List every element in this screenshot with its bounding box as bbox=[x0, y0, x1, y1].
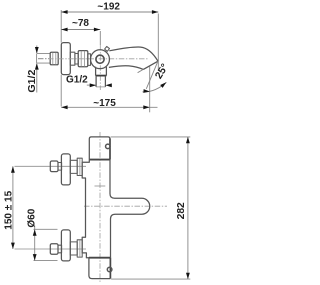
G1/2 supply pipe dimension (left) bbox=[36, 46, 38, 93]
lower valve cap bbox=[50, 244, 58, 255]
small tab on handle bbox=[105, 46, 110, 51]
arc arrowhead at slanted ray bbox=[160, 82, 166, 88]
upper valve adapter bbox=[58, 163, 62, 171]
upper valve centerline bbox=[15, 165, 87, 167]
upper valve escutcheon bbox=[61, 154, 70, 185]
spout outlet edge bbox=[143, 61, 158, 69]
vertical centerline of column bbox=[99, 132, 101, 283]
top plate screw hole bbox=[106, 144, 111, 149]
svg-text:Ø60: Ø60 bbox=[26, 208, 37, 227]
dimension 150 plus-minus 15 bbox=[12, 166, 14, 249]
282 extension lines bbox=[111, 137, 191, 279]
svg-text:~175: ~175 bbox=[93, 98, 116, 109]
upper valve cap bbox=[50, 161, 58, 172]
bottom plate screw hole bbox=[107, 267, 112, 272]
dimension 282 bbox=[187, 137, 189, 279]
shower outlet tube bbox=[96, 76, 105, 87]
svg-text:150 ± 15: 150 ± 15 bbox=[3, 190, 14, 229]
wall reference extension line bbox=[60, 10, 62, 107]
extension line at outlet (for ~175) bbox=[149, 67, 151, 113]
lower valve ring bbox=[70, 242, 77, 255]
svg-text:G1/2: G1/2 bbox=[27, 69, 38, 92]
svg-text:G1/2: G1/2 bbox=[66, 75, 88, 86]
spout top curve bbox=[109, 47, 158, 61]
extension/center line at handle axis (for ~78) bbox=[99, 31, 101, 45]
dimension ~78 bbox=[61, 29, 100, 31]
horizontal centerline through body bbox=[38, 58, 148, 60]
lower valve escutcheon bbox=[61, 230, 70, 261]
lower valve centerline bbox=[15, 248, 87, 250]
column body right outline with tub spout bbox=[110, 160, 150, 258]
horizontal centerline of spout bbox=[84, 205, 167, 207]
vertical centerline through handle bbox=[99, 45, 101, 90]
25 degree arc bbox=[142, 82, 166, 91]
25-degree slanted ray from tip bbox=[146, 61, 158, 89]
body block below handle bbox=[96, 67, 107, 76]
column body left outline bbox=[82, 160, 89, 258]
dimension diameter 60 bbox=[34, 229, 58, 260]
lower valve nut bbox=[77, 240, 82, 257]
bottom mounting plate bbox=[89, 257, 111, 259]
upper valve ring bbox=[70, 160, 77, 173]
union nut on pipe bbox=[50, 52, 58, 65]
supply pipe bbox=[37, 54, 51, 64]
upper valve nut bbox=[77, 158, 82, 175]
dimension ~192 bbox=[61, 11, 158, 13]
outlet edge extension (thin) bbox=[138, 69, 144, 72]
handle knob (circle) bbox=[91, 50, 110, 69]
top mounting plate bbox=[89, 159, 110, 161]
svg-text:~78: ~78 bbox=[72, 18, 89, 29]
svg-text:282: 282 bbox=[176, 202, 187, 219]
connection nut bbox=[78, 51, 88, 67]
pipe centerline bbox=[38, 57, 49, 59]
s-union middle piece bbox=[70, 52, 75, 65]
center tick bbox=[95, 185, 106, 187]
dimension ~175 bbox=[61, 106, 157, 108]
arc arrowhead at vertical line bbox=[143, 89, 150, 93]
spout bottom curve bbox=[109, 66, 143, 70]
svg-text:~192: ~192 bbox=[97, 2, 120, 13]
wall escutcheon bbox=[61, 43, 70, 75]
s-union gap piece bbox=[75, 54, 78, 65]
lower valve adapter bbox=[58, 245, 62, 253]
extension line at spout tip (right, for ~192) bbox=[157, 14, 159, 72]
ring piece bbox=[88, 54, 91, 66]
